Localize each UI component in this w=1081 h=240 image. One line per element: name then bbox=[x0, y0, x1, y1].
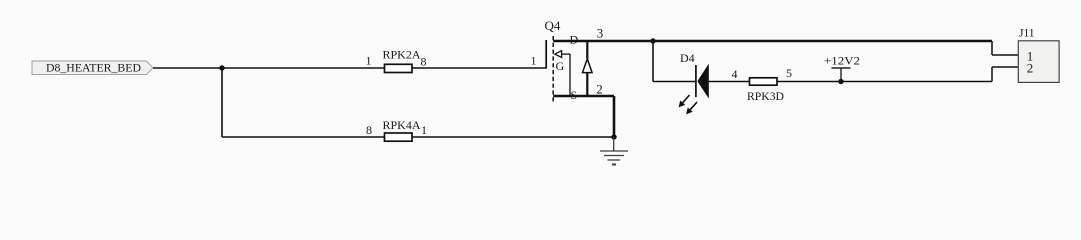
gate plate bbox=[545, 40, 547, 69]
wire bbox=[992, 66, 1018, 68]
anode triangle bbox=[697, 64, 708, 99]
svg-text:4: 4 bbox=[732, 67, 738, 81]
wire bbox=[709, 81, 749, 83]
svg-text:RPK4A: RPK4A bbox=[383, 118, 421, 132]
wire source to ground (thick) bbox=[613, 96, 616, 137]
emission arrow bbox=[683, 95, 690, 103]
svg-text:3: 3 bbox=[597, 26, 604, 41]
svg-text:Q4: Q4 bbox=[545, 18, 561, 33]
resistor RPK2A bbox=[366, 48, 427, 73]
svg-text:RPK3D: RPK3D bbox=[747, 89, 784, 103]
resistor RPK4A bbox=[366, 118, 427, 141]
wire bbox=[222, 136, 614, 138]
svg-text:G: G bbox=[556, 59, 565, 73]
node junction +12V2 bbox=[838, 79, 843, 84]
emission arrow bbox=[690, 102, 697, 110]
wire bbox=[652, 41, 654, 82]
connector J11 bbox=[1018, 27, 1059, 82]
svg-text:RPK2A: RPK2A bbox=[383, 48, 421, 62]
svg-text:J11: J11 bbox=[1019, 27, 1035, 39]
ground bbox=[600, 137, 628, 165]
svg-text:8: 8 bbox=[421, 55, 427, 69]
source lead bbox=[553, 95, 614, 98]
svg-text:D8_HEATER_BED: D8_HEATER_BED bbox=[46, 61, 141, 75]
wire bbox=[221, 68, 223, 137]
svg-text:1: 1 bbox=[366, 54, 372, 68]
cathode bar bbox=[695, 65, 697, 97]
svg-text:D: D bbox=[570, 33, 579, 47]
LED D4 bbox=[679, 51, 709, 114]
wire bbox=[653, 81, 695, 83]
svg-text:1: 1 bbox=[531, 54, 537, 68]
wire drain net (thick) bbox=[553, 40, 992, 43]
svg-text:8: 8 bbox=[366, 123, 372, 137]
svg-text:2: 2 bbox=[596, 82, 603, 97]
power +12V2 bbox=[824, 54, 860, 82]
node junction drain/LED bbox=[650, 38, 655, 43]
transistor Q4 bbox=[531, 18, 615, 102]
channel dashed bbox=[552, 36, 554, 102]
svg-text:+12V2: +12V2 bbox=[824, 54, 860, 68]
resistor RPK3D bbox=[732, 66, 793, 103]
wire bbox=[991, 41, 993, 55]
node junction source/ground bbox=[611, 134, 616, 139]
svg-text:S: S bbox=[571, 88, 578, 102]
bulk arrow bbox=[555, 51, 562, 58]
wire bbox=[153, 67, 546, 69]
node junction at input split bbox=[219, 65, 224, 70]
svg-text:5: 5 bbox=[786, 66, 792, 80]
svg-text:2: 2 bbox=[1027, 61, 1034, 76]
svg-text:1: 1 bbox=[421, 123, 427, 137]
svg-text:D4: D4 bbox=[680, 51, 695, 65]
wire bbox=[992, 54, 1018, 56]
net label D8_HEATER_BED bbox=[32, 61, 153, 75]
wire bbox=[991, 67, 993, 82]
body diode bbox=[586, 41, 588, 59]
wire bbox=[777, 81, 992, 83]
